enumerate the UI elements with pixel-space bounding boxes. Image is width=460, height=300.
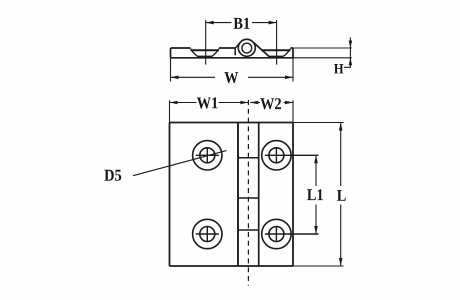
dimension H arrows xyxy=(349,41,353,66)
hole top-right inner xyxy=(269,148,284,163)
hole bottom-right inner xyxy=(269,227,284,242)
hole bottom-left inner xyxy=(200,227,215,242)
knuckle outer circle (top view) xyxy=(238,39,255,56)
barrel left line (front view) xyxy=(237,123,239,267)
dimension B1 arrows xyxy=(206,21,277,25)
knuckle division 3 xyxy=(238,229,259,231)
countersink right (top view) xyxy=(262,49,291,57)
hole top-right crosshair and L1 leader xyxy=(265,147,319,163)
knuckle left tangent xyxy=(235,43,240,48)
hole top-left outer xyxy=(193,141,222,170)
pin hole circle (top view) xyxy=(242,43,252,53)
hole bottom-left outer xyxy=(193,219,222,248)
hole bottom-left crosshair xyxy=(196,226,219,242)
label W2 xyxy=(260,98,281,109)
hole bottom-right crosshair and L1 leader xyxy=(265,226,319,242)
dimension W1 arrows xyxy=(170,101,249,105)
hole top-left crosshair xyxy=(196,147,219,163)
dimension W1 extension left xyxy=(169,100,171,122)
top view hinge bar outline xyxy=(171,48,294,58)
label W1 xyxy=(197,97,218,108)
dimension W2 arrows xyxy=(250,101,293,105)
leader line from D5 to hole xyxy=(133,151,227,176)
dimension W line xyxy=(171,76,294,78)
dimension B1 extension lines xyxy=(206,20,277,65)
knuckle right tangent merging into right countersink slant xyxy=(253,42,269,56)
hole top-right outer xyxy=(262,141,291,170)
hole bottom-right outer xyxy=(262,219,291,248)
countersink left (top view) xyxy=(191,49,220,57)
label B1 xyxy=(234,18,250,29)
barrel right line (front view) xyxy=(258,123,260,267)
label L xyxy=(337,190,346,201)
label D5 xyxy=(104,170,121,181)
knuckle left wrap stub xyxy=(234,48,236,55)
dimension L line xyxy=(340,123,342,267)
dimension L1 line xyxy=(315,155,317,234)
dimension H line xyxy=(344,38,351,68)
dimension W2 line xyxy=(250,102,293,104)
label H xyxy=(334,64,343,73)
dimension H extension lines xyxy=(293,48,352,58)
dimension L1 arrows xyxy=(314,155,318,234)
label L1 xyxy=(307,189,323,200)
label W xyxy=(224,72,238,83)
dimension L extension lines xyxy=(293,123,344,267)
dimension B1 line xyxy=(206,22,277,24)
dimension W extension lines xyxy=(171,49,294,82)
dimension W1 line xyxy=(170,102,249,104)
dimension W2 extension right xyxy=(292,100,294,122)
hinge pin centerline (dash-dot) xyxy=(247,100,249,286)
hole top-left inner xyxy=(200,148,215,163)
dimension W arrows xyxy=(171,76,294,80)
knuckle division 2 xyxy=(238,197,259,199)
dimension L arrows xyxy=(339,123,343,267)
front view plate outline xyxy=(170,123,294,267)
knuckle division 1 xyxy=(238,157,259,159)
